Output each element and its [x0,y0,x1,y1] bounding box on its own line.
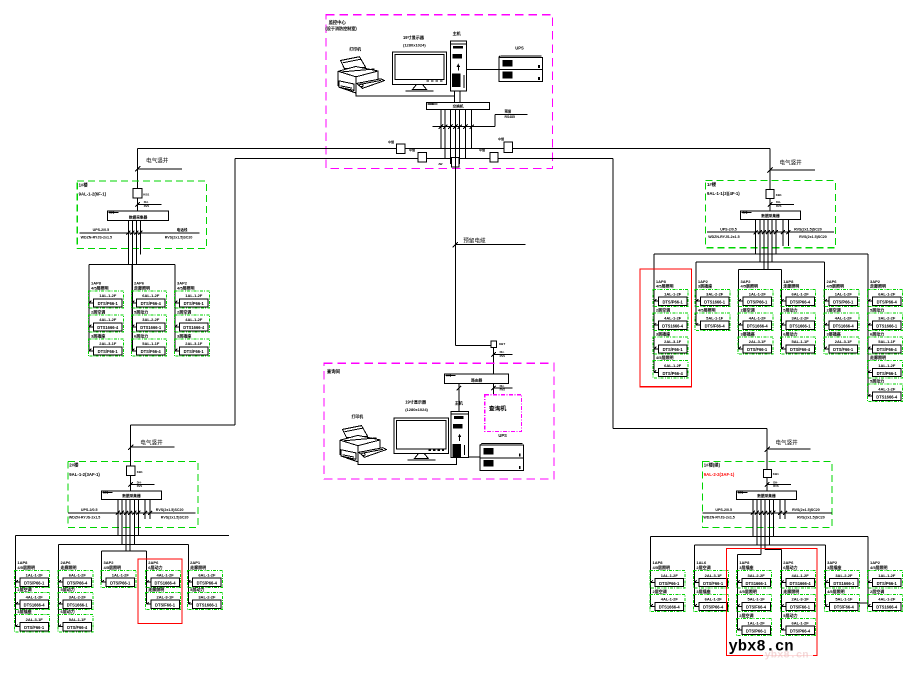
svg-text:4AL-1-2F: 4AL-1-2F [792,573,810,578]
wire riser LL [131,158,235,465]
svg-text:交换机: 交换机 [453,103,464,108]
monitoring-room dashed boundary M1 [326,15,553,169]
printer P1 [338,47,384,93]
svg-text:打印机: 打印机 [352,414,364,419]
svg-text:走廊照明: 走廊照明 [782,283,799,289]
svg-text:DTS/P66-4: DTS/P66-4 [67,581,88,586]
wire SW2 to query PC [493,384,495,395]
svg-text:UPS-2/0.5: UPS-2/0.5 [720,227,737,231]
svg-text:19寸显示器: 19寸显示器 [403,34,425,40]
patch bus with ticks [433,125,496,129]
svg-text:DTS/P66-4: DTS/P66-4 [877,300,898,305]
query switch SW2 [445,374,509,384]
svg-text:DTS/F66-1: DTS/F66-1 [184,349,205,354]
svg-text:3层插座: 3层插座 [17,608,31,614]
svg-text:DTS/P66-4: DTS/P66-4 [197,581,218,586]
upper-right fan wire 1 [654,253,868,255]
svg-text:5AL-1-1F: 5AL-1-1F [878,339,896,344]
riser leader LL [128,438,175,450]
svg-text:5层动力: 5层动力 [783,612,797,618]
meter unit LL-C1R2 [15,586,50,610]
lower-right column buses [651,536,869,630]
svg-text:4/5层照明: 4/5层照明 [17,564,35,570]
meter unit UL-C2R2 [131,308,166,332]
alarm red box UR [640,269,692,387]
svg-text:DTS1666-4: DTS1666-4 [97,325,119,330]
upper-right wire square to bar [769,199,771,211]
meter unit UR-C6R4 [867,354,902,378]
svg-text:UPS-2/0.5: UPS-2/0.5 [93,228,110,232]
wire P1 to switch [356,77,454,96]
central switch SW0 [427,102,490,109]
meter unit UR-C5R3 [824,330,859,354]
svg-text:4/5层照明: 4/5层照明 [827,283,845,289]
svg-text:走廊照明: 走廊照明 [147,586,164,592]
repeater RP1 [388,139,405,154]
svg-text:4/5层照明: 4/5层照明 [653,564,671,570]
svg-text:中继: 中继 [498,136,504,141]
svg-text:4/5层照明: 4/5层照明 [739,588,757,594]
svg-text:RVS: RVS [776,204,782,208]
meter unit UR-C1R1 [653,279,688,307]
repeater RP2 [409,147,427,162]
svg-text:DTS1666-4: DTS1666-4 [183,325,205,330]
svg-text:走廊照明: 走廊照明 [782,588,799,594]
svg-text:RVS: RVS [144,204,150,208]
svg-text:主机: 主机 [455,400,464,406]
svg-text:6AL-1-2F: 6AL-1-2F [142,293,160,298]
svg-text:DTS/F66-4: DTS/F66-4 [834,605,855,610]
svg-text:DTS/P66-4: DTS/P66-4 [790,300,811,305]
meter unit LR-C3R3 [737,612,772,636]
upper-left fan wire [89,264,175,266]
meter unit UR-C1R4 [653,354,688,378]
svg-text:6AL-1-2F: 6AL-1-2F [198,573,216,578]
query terminal dotted box [485,395,522,432]
wire SW2 to tower [457,384,461,412]
svg-text:1AL-1-2F: 1AL-1-2F [99,293,117,298]
svg-text:3AL-2-2F: 3AL-2-2F [878,315,896,320]
svg-text:4AL-1-2F: 4AL-1-2F [99,317,117,322]
svg-text:3AL-2-2F: 3AL-2-2F [198,595,216,600]
meter unit UR-C5R2 [824,307,859,331]
svg-text:RVS(2x1.5)SC20: RVS(2x1.5)SC20 [794,227,822,231]
svg-text:2层空调: 2层空调 [17,586,31,592]
svg-text:DTS/P66-1: DTS/P66-1 [877,581,898,586]
svg-text:5层动力: 5层动力 [190,586,204,592]
svg-text:DTS/F66-4: DTS/F66-4 [705,323,726,328]
PC tower H2 [451,400,469,458]
svg-text:走廊照明: 走廊照明 [189,564,206,570]
svg-text:1AL-1-2F: 1AL-1-2F [749,292,767,297]
lower-left bus labels [69,508,189,519]
svg-text:4/5层照明: 4/5层照明 [741,283,759,289]
upper-left wire square to bar [137,198,139,211]
svg-text:2层空调: 2层空调 [739,612,753,618]
lower-right title [704,462,735,477]
svg-text:1AL-1-2F: 1AL-1-2F [661,573,679,578]
svg-text:5层动力: 5层动力 [134,308,148,314]
monitor V2 [394,399,449,461]
svg-text:3AL-2-2F: 3AL-2-2F [142,317,160,322]
upper-right fan wire 2 [696,261,825,263]
room title [325,19,357,31]
svg-text:1#楼: 1#楼 [79,181,89,188]
svg-text:3层插座: 3层插座 [696,588,710,594]
svg-text:DTS1666-4: DTS1666-4 [155,581,177,586]
upper-left title [79,181,107,196]
lower-right bar drop wires [753,499,785,554]
meter unit UL-C3R1 [174,281,209,309]
upper-right collector bar [741,211,801,220]
meter unit UR-C4R2 [781,307,816,331]
query-room dashed boundary M2 [324,363,554,479]
meter unit UR-C6R5 [867,378,902,402]
riser leader UL [135,156,182,171]
svg-text:UPS: UPS [515,46,524,51]
svg-text:1AL-1-2F: 1AL-1-2F [748,621,766,626]
lower-left cable spec [129,480,155,488]
UPS rack U2 [480,433,523,470]
meter unit LL-C4R2 [146,586,181,610]
svg-text:3层插座: 3层插座 [739,564,753,570]
meter unit UR-C3R1 [738,279,773,307]
svg-text:1AL-1-2F: 1AL-1-2F [112,573,130,578]
meter unit UR-C1R2 [653,307,688,331]
lower-left boundary green box [68,461,198,527]
svg-text:5AL-1-1F: 5AL-1-1F [792,339,810,344]
lower-left fan wire 1 [16,535,230,537]
svg-text:DTS/F66-1: DTS/F66-1 [155,603,176,608]
meter unit LR-C6R1 [867,560,902,588]
lower-right bus labels [703,508,824,519]
meter unit UL-C1R1 [88,281,123,309]
lower-left junction box [127,466,143,476]
svg-text:KB1: KB1 [776,193,782,197]
svg-text:DTS1666-1: DTS1666-1 [833,581,855,586]
lower-right collector bar [736,491,796,500]
svg-text:DTS1666-4: DTS1666-4 [659,605,681,610]
svg-text:DTS/P66-1: DTS/P66-1 [746,629,767,634]
meter unit UR-C4R3 [781,330,816,354]
svg-text:(设于消防控制室): (设于消防控制室) [325,25,357,31]
lower-left column buses [16,536,189,627]
printer P2 [340,414,386,462]
meter unit UR-C4R1 [781,279,816,307]
svg-text:5层动力: 5层动力 [870,307,884,313]
riser leader LR [765,439,811,452]
meter unit LR-C3R2 [737,588,772,612]
svg-text:5AL-1-1F: 5AL-1-1F [748,597,766,602]
upper-right bar drop wires [756,219,789,269]
svg-text:DTS1666-1: DTS1666-1 [67,603,89,608]
svg-text:DTS1666-4: DTS1666-4 [790,581,812,586]
svg-text:电气竖井: 电气竖井 [146,156,169,164]
svg-text:3层插座: 3层插座 [827,330,841,336]
svg-text:4AL-1-2F: 4AL-1-2F [749,315,767,320]
svg-text:DTS/F66-1: DTS/F66-1 [703,581,724,586]
svg-text:预留: 预留 [505,109,512,114]
wire H2 to U2 [468,456,480,458]
svg-text:DTS/F66-4: DTS/F66-4 [877,347,898,352]
svg-text:3层插座: 3层插座 [698,283,712,289]
svg-text:DTS1666-1: DTS1666-1 [704,300,726,305]
svg-text:DTS/F66-1: DTS/F66-1 [24,625,45,630]
svg-text:电气竖井: 电气竖井 [140,438,163,446]
alarm red box LR [726,549,816,656]
svg-text:6AL-1-2F: 6AL-1-2F [792,621,810,626]
svg-text:UPS-2/0.5: UPS-2/0.5 [715,508,732,512]
svg-text:数据采集器: 数据采集器 [756,493,776,498]
svg-text:DTS/P66-4: DTS/P66-4 [662,371,683,376]
wire centre riser [455,110,491,346]
svg-text:DTS1666-1: DTS1666-1 [140,325,162,330]
lower-left fan wire 2 [59,543,189,545]
svg-text:19寸显示器: 19寸显示器 [405,399,427,405]
svg-text:3层插座: 3层插座 [177,332,191,338]
svg-text:1AL-1-2F: 1AL-1-2F [664,292,682,297]
cable spec centre [491,350,512,358]
meter unit LR-C4R1 [781,560,816,588]
watermark ghost [763,650,813,662]
svg-text:2层空调: 2层空调 [91,308,105,314]
upper-right title [707,181,740,196]
svg-text:DTS/P66-1: DTS/P66-1 [833,300,854,305]
meter unit UR-C6R1 [867,279,902,307]
svg-text:DTS/P66-1: DTS/P66-1 [184,301,205,306]
svg-text:1#楼(续): 1#楼(续) [704,462,721,469]
lower-right cable spec [765,480,791,488]
svg-text:DTS/F66-4: DTS/F66-4 [141,349,162,354]
svg-text:DTS1666-4: DTS1666-4 [833,323,855,328]
svg-text:DTS/P66-1: DTS/P66-1 [659,581,680,586]
svg-text:DH-: DH- [500,384,505,388]
svg-text:2层空调: 2层空调 [741,307,755,313]
reserved RS485 branch [495,109,528,127]
svg-text:2AL-3-1F: 2AL-3-1F [792,597,810,602]
lower-right fan wire 3 [738,554,762,556]
svg-text:走廊照明: 走廊照明 [133,284,150,290]
svg-text:DTS1666-4: DTS1666-4 [662,323,684,328]
svg-text:路由器: 路由器 [471,377,482,382]
svg-text:DTS/F66-4: DTS/F66-4 [67,625,88,630]
svg-text:DTS1666-1: DTS1666-1 [876,323,898,328]
svg-text:中继: 中继 [409,147,415,152]
wire H1 to U1 [466,69,498,71]
svg-text:6层动力: 6层动力 [61,608,75,614]
lower-left signal bus [68,511,196,515]
svg-text:6层动力: 6层动力 [783,330,797,336]
meter unit UL-C2R3 [131,332,166,356]
svg-text:2AL-3-1F: 2AL-3-1F [26,617,44,622]
svg-text:2#楼: 2#楼 [69,462,79,469]
svg-text:4AL-1-2F: 4AL-1-2F [664,315,682,320]
svg-text:RVS(2x1.5)SC20: RVS(2x1.5)SC20 [161,515,189,519]
svg-text:WDZN-RYJS-2x1.5: WDZN-RYJS-2x1.5 [69,515,100,519]
meter unit UL-C3R2 [174,308,209,332]
svg-text:5AL-1-1F: 5AL-1-1F [835,597,853,602]
svg-text:1AL-1-2F: 1AL-1-2F [185,293,203,298]
svg-text:DTS1666-1: DTS1666-1 [196,603,218,608]
svg-text:DH-: DH- [776,200,781,204]
wire riser UR [769,149,771,190]
meter unit LR-C1R1 [650,560,685,588]
alarm red box LL [138,559,182,624]
svg-text:查询间: 查询间 [326,368,341,375]
svg-text:DTS/F66-1: DTS/F66-1 [663,347,684,352]
svg-text:DTS1666-1: DTS1666-1 [746,581,768,586]
svg-text:DH-: DH- [500,350,505,354]
meter unit LR-C4R2 [781,588,816,612]
meter unit LR-C2R1 [694,560,729,588]
svg-text:DTS/P66-1: DTS/P66-1 [98,301,119,306]
svg-text:KB1: KB1 [137,470,143,474]
svg-text:4AL-1-2F: 4AL-1-2F [157,573,175,578]
svg-text:ybx8.cn: ybx8.cn [765,650,809,662]
wire centre riser lower [493,348,495,375]
svg-text:DTS/P66-4: DTS/P66-4 [790,629,811,634]
svg-text:9AL-1-2(3AF-1): 9AL-1-2(3AF-1) [69,472,100,477]
meter unit LL-C2R2 [58,586,93,610]
svg-text:6层动力: 6层动力 [783,564,797,570]
meter unit LR-C1R2 [650,588,685,612]
svg-text:2层空调: 2层空调 [653,588,667,594]
svg-text:5AL-1-1F: 5AL-1-1F [69,617,87,622]
svg-text:走廊照明: 走廊照明 [869,354,886,360]
wires switch drop set [441,110,472,165]
upper-left bus labels [81,227,193,239]
svg-text:RVS(2x1.5)SC20: RVS(2x1.5)SC20 [165,235,193,239]
meter unit UR-C3R3 [738,330,773,354]
svg-text:5AL-1-1F: 5AL-1-1F [142,341,160,346]
svg-text:1AL-1-2F: 1AL-1-2F [878,363,896,368]
svg-text:2层空调: 2层空调 [656,307,670,313]
svg-text:2层空调: 2层空调 [827,307,841,313]
meter unit LL-C3R1 [101,560,136,588]
junction box JX0 [491,341,506,348]
svg-text:(1280x1024): (1280x1024) [403,42,426,47]
upper-right cable spec [768,200,794,208]
meter unit LR-C2R2 [694,588,729,612]
svg-text:DTS1666-4: DTS1666-4 [876,394,898,399]
repeater RP4 [479,147,498,162]
svg-text:DH-: DH- [137,480,142,484]
svg-text:WDZN-RYJS-2x1.5: WDZN-RYJS-2x1.5 [81,235,112,239]
svg-text:6AL-1-2F: 6AL-1-2F [69,573,87,578]
svg-text:WDZN-RYJS-2x1.5: WDZN-RYJS-2x1.5 [703,515,734,519]
meter unit UR-C2R1 [695,279,730,307]
svg-text:DTS1666-1: DTS1666-1 [790,323,812,328]
svg-text:4AL-1-2F: 4AL-1-2F [835,315,853,320]
svg-text:DTS/F66-4: DTS/F66-4 [790,347,811,352]
watermark ybx8.cn [729,638,794,656]
repeater RP3 [438,158,459,168]
meter unit UL-C2R1 [131,281,166,309]
svg-text:DTS/F66-1: DTS/F66-1 [833,347,854,352]
svg-text:5层动力: 5层动力 [61,586,75,592]
svg-text:JW: JW [438,162,443,166]
svg-text:4/5层照明: 4/5层照明 [104,564,122,570]
meter unit LL-C5R1 [187,560,222,588]
lower-right junction box [763,470,779,478]
svg-text:4AL-1-2F: 4AL-1-2F [26,595,44,600]
svg-text:DTS/F66-1: DTS/F66-1 [747,347,768,352]
svg-text:4/5层照明: 4/5层照明 [91,284,109,290]
svg-text:4/5层照明: 4/5层照明 [656,283,674,289]
svg-text:主机: 主机 [453,30,462,36]
svg-text:6AL-1-2F: 6AL-1-2F [705,597,723,602]
upper-left collector bar [108,211,169,221]
svg-text:3层插座: 3层插座 [656,330,670,336]
meter unit LR-C4R3 [781,612,816,636]
svg-text:1AL-1-2F: 1AL-1-2F [26,573,44,578]
wire H1 drop [455,91,460,103]
svg-text:DTS1666-4: DTS1666-4 [876,605,898,610]
svg-text:6层动力: 6层动力 [148,564,162,570]
lower-right boundary green box [702,461,831,527]
lower-left bar drop wires [118,499,150,551]
meter unit UL-C3R3 [174,332,209,356]
svg-text:数据采集器: 数据采集器 [121,493,141,498]
svg-text:3AL-2-2F: 3AL-2-2F [792,315,810,320]
meter unit UR-C2R2 [695,307,730,331]
meter unit UR-C6R3 [867,330,902,354]
meter unit LL-C5R2 [187,586,222,610]
svg-text:KBT: KBT [499,342,505,346]
svg-text:1#楼: 1#楼 [707,181,717,188]
svg-text:DTS/F66-4: DTS/F66-4 [746,605,767,610]
svg-text:3层插座: 3层插座 [91,332,105,338]
svg-text:2层空调: 2层空调 [177,308,191,314]
svg-text:UPS: UPS [498,433,507,438]
svg-text:DTS/P66-4: DTS/P66-4 [703,605,724,610]
svg-text:RS485: RS485 [505,115,515,119]
lower-left title [69,462,100,477]
upper-right junction box [766,190,782,199]
svg-text:2AL-3-1F: 2AL-3-1F [705,573,723,578]
lower-right fan wire 2 [695,544,826,546]
upper-right column buses [654,254,868,396]
svg-text:RVS: RVS [773,484,779,488]
upper-right fan wire 3 [739,269,782,271]
svg-text:查询机: 查询机 [489,404,507,412]
svg-text:DTS1666-4: DTS1666-4 [747,323,769,328]
wire P2-H2 base [358,446,456,464]
lower-right wire square to bar [766,478,768,492]
svg-text:RVS: RVS [500,388,506,392]
svg-text:4AL-1-2F: 4AL-1-2F [878,597,896,602]
svg-text:RVS: RVS [137,484,143,488]
query room title [326,368,341,375]
svg-text:DTS/P66-1: DTS/P66-1 [662,300,683,305]
meter unit LR-C3R1 [737,560,772,588]
svg-text:DTS/P66-1: DTS/P66-1 [747,300,768,305]
svg-text:2AL-3-1F: 2AL-3-1F [157,595,175,600]
lower-left wire square to bar [130,475,132,491]
svg-text:电气竖井: 电气竖井 [779,158,802,166]
svg-text:5AL-1-1F: 5AL-1-1F [706,315,724,320]
svg-text:3AL-2-2F: 3AL-2-2F [706,292,724,297]
upper-left junction box [133,189,149,198]
meter unit LL-C4R1 [146,560,181,588]
lower-right signal bus [702,511,831,515]
PC tower H1 [450,30,466,91]
cable leader centre [453,236,526,247]
meter unit LR-C5R2 [824,588,859,612]
svg-text:9AL-1-2(6F-1): 9AL-1-2(6F-1) [79,192,107,197]
svg-text:5层动力: 5层动力 [783,307,797,313]
svg-text:DTS/P66-1: DTS/P66-1 [110,581,131,586]
